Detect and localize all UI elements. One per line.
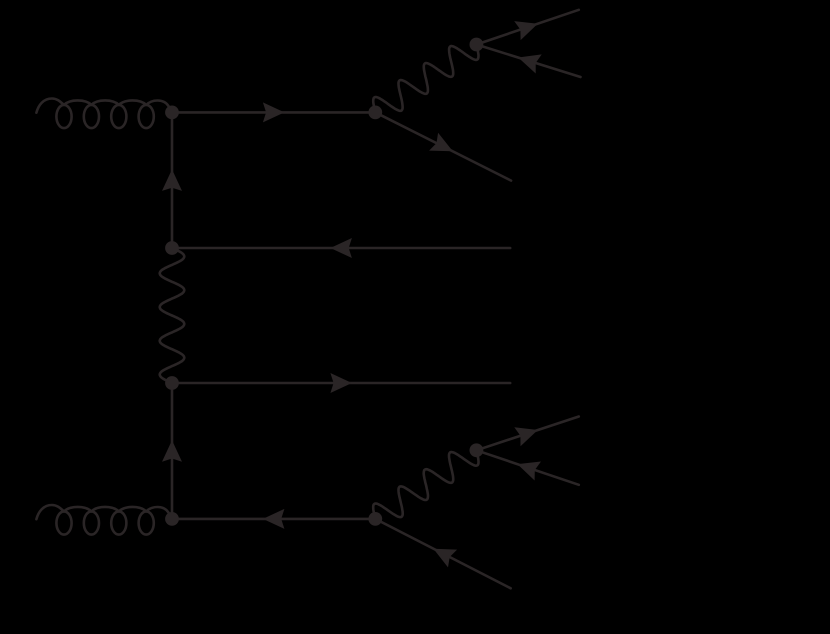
vertex B [368,106,382,120]
vertex G [368,512,382,526]
arrow left on F-G [263,509,285,529]
arrow up on E-F [162,440,182,462]
wire: quark line from E to right (middle 2) [172,382,510,385]
arrow up-right on H upper [514,427,538,446]
gluon g1 (incoming, top left) [36,99,172,129]
gluon g2 (incoming, bottom left) [36,505,172,535]
wire: quark line F to G (bottom horizontal) [172,518,375,521]
wire: quark line B to lower-right [375,112,511,180]
arrow up-left on G diagonal [433,549,457,568]
vertex H [470,443,484,457]
wire: antifermion into C (lower) [476,45,580,78]
wire: quark line E to F (lower vertical) [171,383,174,519]
boson wavy B to C [373,45,478,113]
vertex E [165,376,179,390]
boson wavy G to H [373,450,478,519]
wire: antiquark line from D to right (middle 1) [172,247,510,250]
arrow left on D line [330,238,352,258]
wire: quark line A to D (upper vertical) [171,112,174,248]
arrow up-left on C lower [518,54,542,73]
wire: fermion out of C (upper) [476,10,578,45]
boson wavy D to E (vertical) [160,248,185,383]
vertex C [470,38,484,52]
arrow right on E line [330,373,352,393]
arrow right on A-B [263,102,285,122]
wire: fermion out of H (upper) [476,417,578,451]
arrow up-left on H lower [517,462,541,481]
wire: quark line A to B (top horizontal) [172,111,375,114]
arrow down-right on B diagonal [429,133,453,152]
arrow up-right on C upper [514,21,538,40]
arrow up on A-D [162,169,182,191]
vertex F [165,512,179,526]
vertex D [165,241,179,255]
wire: antiquark line G to lower-right [375,519,510,588]
wire: antifermion into H (lower) [476,450,578,485]
vertex A [165,106,179,120]
